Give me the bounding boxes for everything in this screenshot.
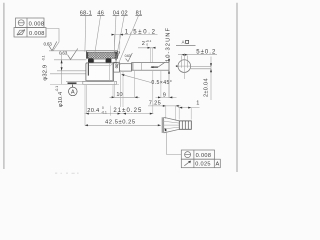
svg-text:2±0.04: 2±0.04 — [204, 78, 210, 97]
shaft neck section — [120, 64, 132, 71]
arrow mark at circle left — [176, 65, 179, 67]
datum A symbol — [68, 82, 77, 84]
svg-text:7.25: 7.25 — [149, 100, 161, 106]
feature control frame top-left row1 — [16, 18, 45, 28]
svg-text:81: 81 — [136, 11, 143, 17]
svg-text:0.63: 0.63 — [44, 42, 53, 47]
thread shoulder face — [132, 63, 134, 71]
body inner left dark line — [87, 63, 89, 76]
svg-text:φ32.9: φ32.9 — [43, 65, 49, 81]
body inner right line — [109, 63, 111, 81]
svg-text:A: A — [216, 162, 220, 168]
feature control frame bottom-right row1 — [181, 150, 214, 159]
svg-text:10-32UNF: 10-32UNF — [165, 27, 171, 62]
shaft end face extension — [168, 56, 170, 98]
extension line mid 110.4 — [109, 106, 111, 116]
vertical dimension 2 +-0.04 — [210, 57, 212, 101]
svg-text:0.63: 0.63 — [59, 50, 68, 55]
s2 chamfer ticks — [120, 64, 122, 65]
leader from top-left FCF — [46, 29, 59, 51]
slot chords — [181, 56, 183, 68]
body right edge double — [112, 63, 114, 81]
extension line at 152.8 — [152, 71, 154, 114]
border left frame line — [3, 3, 5, 169]
svg-text:0.008: 0.008 — [29, 31, 45, 37]
extension line bearing top left — [49, 50, 86, 52]
svg-text:-0.1: -0.1 — [55, 86, 59, 92]
bearing ball right — [106, 58, 112, 63]
detail view cone — [164, 117, 180, 133]
flange under body — [83, 81, 117, 84]
feature control frame top-left row2 — [14, 28, 46, 38]
seal groove circles — [116, 64, 118, 66]
threaded shaft — [132, 63, 169, 71]
end view vertical centerline — [183, 54, 185, 80]
svg-text:1: 1 — [196, 101, 199, 107]
leader from detail to bottom FCF — [165, 129, 181, 155]
bearing inner ring spacer — [94, 59, 106, 62]
thread leader arrow inside shaft — [151, 66, 158, 68]
extension line bearing seat left — [54, 59, 86, 61]
shaft seal section — [114, 62, 120, 72]
datum A extension line — [66, 80, 86, 82]
bearing ball left — [88, 58, 94, 63]
svg-text:0.008: 0.008 — [29, 21, 45, 27]
end view circle — [178, 60, 191, 73]
extension lines mid pair — [120, 72, 122, 107]
svg-text:-0.1: -0.1 — [42, 55, 46, 61]
border right frame line — [236, 3, 238, 172]
thread runout line — [141, 63, 143, 70]
bearing outer ring hatched — [86, 51, 117, 59]
detail view horn left edge — [161, 117, 163, 133]
bearing bottom line — [86, 62, 117, 64]
svg-text:0.5×45°: 0.5×45° — [151, 80, 172, 86]
long extension line under flange — [50, 83, 119, 85]
svg-text:φ10.4: φ10.4 — [58, 92, 64, 107]
svg-text:A: A — [71, 90, 75, 96]
faint bottom marks — [55, 173, 79, 174]
svg-text:A: A — [182, 40, 185, 45]
dimension line 20.4 / 21 — [85, 113, 154, 115]
feature control frame bottom-right row2 — [181, 159, 220, 168]
extension lines from body left going down — [84, 85, 86, 126]
svg-text:0.025: 0.025 — [195, 162, 211, 168]
extension line mid left — [50, 73, 86, 75]
extension line bore bottom left — [57, 70, 86, 72]
svg-text:20.4: 20.4 — [87, 108, 100, 114]
detail view cylinder — [179, 121, 191, 129]
bearing right cap — [111, 58, 116, 62]
svg-text:42.5±0.25: 42.5±0.25 — [105, 119, 136, 125]
svg-text:0.008: 0.008 — [196, 153, 212, 159]
body bottom dark edge — [87, 80, 113, 82]
body inner bore line — [89, 65, 110, 67]
body outline — [86, 63, 114, 81]
dimension line phi10.4 vertical — [61, 53, 63, 84]
end view horizontal centerline — [177, 65, 191, 67]
body right extension down — [114, 82, 116, 97]
